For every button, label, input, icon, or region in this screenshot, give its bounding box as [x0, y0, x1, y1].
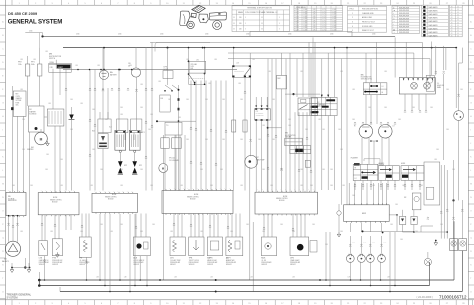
svg-text:1-BK: 1-BK: [174, 277, 177, 279]
svg-text:#-RD: #-RD: [313, 25, 316, 27]
svg-text:ECM: ECM: [112, 194, 117, 196]
svg-text:#-WH: #-WH: [295, 18, 299, 20]
svg-text:2-BK: 2-BK: [140, 107, 143, 109]
svg-text:▲: ▲: [393, 9, 395, 12]
svg-text:2-BK: 2-BK: [200, 169, 203, 171]
svg-text:2-BK: 2-BK: [340, 149, 343, 151]
svg-text:##: ##: [457, 35, 459, 37]
svg-text:HIGH/LOW: HIGH/LOW: [437, 85, 444, 87]
svg-text:1-RD: 1-RD: [140, 231, 143, 233]
svg-text:1-RD: 1-RD: [300, 185, 303, 187]
bus: ground bus y280: [39, 279, 454, 281]
table: numeric list: [450, 5, 463, 37]
gauge cluster MCI: [344, 205, 390, 222]
wires from lamps: [361, 138, 363, 164]
ground at starter: [46, 141, 50, 146]
headlight lamp HL2: [379, 125, 393, 139]
ground symbol 2: [27, 268, 31, 273]
svg-text:OIL SW: OIL SW: [261, 260, 266, 262]
spark plug SP1: [134, 153, 136, 162]
svg-text:##: ##: [457, 14, 459, 16]
svg-text:#-RD: #-RD: [313, 11, 316, 13]
svg-text:1-RD: 1-RD: [50, 231, 53, 233]
component switch box CS: [292, 93, 294, 95]
svg-text:##-YL: ##-YL: [322, 20, 326, 22]
svg-text:2-BK: 2-BK: [105, 119, 108, 121]
spark plug SP2: [119, 153, 121, 162]
svg-text:SENSOR: SENSOR: [261, 264, 267, 266]
svg-text:2-BK: 2-BK: [305, 129, 308, 131]
svg-text:SENSOR: SENSOR: [207, 264, 213, 266]
svg-text:1-RD: 1-RD: [110, 231, 113, 233]
svg-text:CHASSIS GND: CHASSIS GND: [362, 12, 374, 15]
svg-text:##-GN: ##-GN: [332, 11, 336, 13]
svg-text:2-BK: 2-BK: [338, 129, 341, 131]
svg-text:##-GN: ##-GN: [332, 27, 336, 29]
svg-text:MAPS: MAPS: [207, 257, 213, 260]
svg-text:↔: ↔: [393, 21, 395, 23]
svg-text:##-YL: ##-YL: [322, 9, 326, 11]
wires below HL box: [404, 94, 406, 110]
svg-text:1-RD: 1-RD: [340, 71, 343, 73]
svg-text:WW-WW-WW: WW-WW-WW: [399, 21, 410, 23]
svg-text:WW-WW-WW: WW-WW-WW: [399, 8, 410, 10]
svg-text:1-RD: 1-RD: [75, 65, 78, 67]
svg-text:1-RD: 1-RD: [90, 185, 93, 187]
svg-text:ANGLE GND: ANGLE GND: [362, 16, 373, 19]
svg-text:1-RD: 1-RD: [208, 83, 211, 85]
svg-text:PIN #: PIN #: [350, 9, 355, 11]
svg-text:##-BK: ##-BK: [303, 14, 307, 16]
svg-text:##: ##: [457, 17, 459, 19]
svg-text:##-BK: ##-BK: [303, 27, 307, 29]
svg-text:#-RD: #-RD: [313, 20, 316, 22]
wire: left bus y69.5: [63, 69, 237, 71]
starter motor SM: [35, 132, 48, 145]
sensor MCK: [261, 237, 276, 256]
svg-text:1-GN: 1-GN: [236, 63, 239, 65]
svg-text:#-RD: #-RD: [313, 18, 316, 20]
svg-text:##: ##: [451, 7, 453, 9]
svg-text:1-RD: 1-RD: [230, 231, 233, 233]
svg-text:2-BK: 2-BK: [262, 169, 265, 171]
indicator lamp group: [349, 223, 351, 232]
svg-text:TRENER GENERAL: TRENER GENERAL: [7, 292, 32, 296]
svg-text:1-RD: 1-RD: [214, 59, 217, 61]
sensor LTS: [39, 241, 48, 256]
svg-text:#-WH: #-WH: [295, 20, 299, 22]
svg-text:2-BK: 2-BK: [140, 169, 143, 171]
svg-text:2-BK: 2-BK: [395, 204, 398, 206]
wire right verticals: [443, 46, 445, 70]
svg-text:1-RD: 1-RD: [300, 71, 303, 73]
svg-text:1-RD: 1-RD: [252, 59, 255, 61]
svg-text:1-RD: 1-RD: [352, 89, 355, 91]
sensor TPS: [189, 237, 204, 256]
svg-text:2-BK: 2-BK: [205, 99, 208, 101]
wire: MCI to diodes y231.4: [363, 230, 414, 232]
diode D1: [69, 115, 74, 120]
svg-text:THROTTLE POS: THROTTLE POS: [189, 260, 199, 262]
svg-text:2-BK: 2-BK: [420, 185, 423, 187]
svg-text:ENGINE CONTROL: ENGINE CONTROL: [50, 200, 62, 202]
magneto MG (stator): [5, 241, 20, 256]
svg-text:##: ##: [451, 20, 453, 22]
svg-text:1-RD: 1-RD: [45, 51, 48, 53]
svg-text:DS 450 CE 2009: DS 450 CE 2009: [8, 11, 38, 16]
switch START cell (filled): [57, 65, 71, 69]
ground under PTS: [56, 252, 60, 257]
relay R4 (fan relay): [233, 66, 251, 77]
wires from diodes right of MCI: [400, 216, 406, 224]
svg-text:SENSOR: SENSOR: [226, 264, 232, 266]
svg-text:2-BK: 2-BK: [240, 99, 243, 101]
fuel pump FP: [245, 155, 258, 168]
svg-text:2-BK: 2-BK: [368, 107, 371, 109]
bus: y285.5: [39, 285, 429, 287]
svg-text:##: ##: [451, 12, 453, 14]
svg-text:SYSTEM: SYSTEM: [7, 296, 19, 300]
svg-text:CONNECTOR: CONNECTOR: [256, 115, 264, 117]
svg-text:NAME: NAME: [238, 11, 244, 14]
svg-text:CL: CL: [437, 83, 439, 85]
tail lamp TL2: [459, 239, 467, 251]
headlight module HL box: [399, 78, 435, 95]
module ECM C: [162, 191, 233, 214]
svg-text:##: ##: [451, 28, 453, 30]
svg-text:1-RD: 1-RD: [129, 65, 132, 67]
svg-text:1-RD: 1-RD: [120, 185, 123, 187]
svg-text:##: ##: [457, 12, 459, 14]
svg-text:#-WH: #-WH: [295, 16, 299, 18]
svg-text:2-BK: 2-BK: [272, 99, 275, 101]
svg-text:↕: ↕: [393, 12, 394, 15]
svg-text:##: ##: [457, 25, 459, 27]
diagnostic connector CC: [254, 109, 270, 120]
license plate lamp: [424, 258, 431, 265]
svg-text:2-BK: 2-BK: [220, 169, 223, 171]
svg-text:##: ##: [261, 17, 263, 19]
svg-text:##-GN: ##-GN: [332, 14, 336, 16]
svg-text:##-BK: ##-BK: [303, 16, 307, 18]
svg-text:1-RD: 1-RD: [150, 114, 153, 116]
svg-text:#-WH: #-WH: [295, 25, 299, 27]
lamp symbol R: [424, 83, 431, 90]
svg-text:WW-WW-WW: WW-WW-WW: [399, 13, 410, 15]
svg-text:1-RD: 1-RD: [262, 231, 265, 233]
svg-text:SOUND GND: SOUND GND: [362, 26, 373, 28]
svg-text:1-RD: 1-RD: [434, 159, 437, 161]
wire x462 down right edge: [461, 48, 463, 63]
tail lamp TL1: [450, 239, 458, 251]
svg-text:1-BK: 1-BK: [210, 277, 213, 279]
svg-text:SENSOR: SENSOR: [290, 264, 296, 266]
wire verticals field: [89, 70, 91, 191]
svg-text:J: J: [2, 143, 3, 145]
wire: bus y31.5: [250, 30, 352, 32]
battery BA: [103, 48, 105, 70]
svg-text:→: →: [393, 32, 395, 34]
sensor CPS: [290, 237, 309, 256]
svg-text:##-YL: ##-YL: [322, 23, 326, 25]
injector INJ: [102, 48, 104, 88]
svg-text:2-BK: 2-BK: [120, 224, 123, 226]
svg-text:1-RD: 1-RD: [20, 89, 23, 91]
svg-text:CON CONNECTOR NAME TERMINAL ##: CON CONNECTOR NAME TERMINAL ###: [245, 11, 278, 14]
svg-text:#-RD: #-RD: [313, 27, 316, 29]
svg-text:2-BK: 2-BK: [12, 185, 15, 187]
svg-text:##-YL: ##-YL: [322, 27, 326, 29]
module ECM A: [38, 193, 79, 215]
svg-text:1-GY: 1-GY: [352, 242, 355, 244]
svg-text:2-BK: 2-BK: [92, 149, 95, 151]
wire mesh left mid: [52, 69, 54, 109]
svg-text:1-RD: 1-RD: [292, 231, 295, 233]
tail light module box: [424, 162, 440, 205]
module ECM D: [255, 192, 318, 214]
svg-text:1-GY: 1-GY: [363, 242, 366, 244]
svg-text:##: ##: [457, 22, 459, 24]
svg-text:START: START: [58, 66, 63, 69]
svg-text:#: #: [245, 29, 246, 31]
svg-text:##: ##: [457, 7, 459, 9]
svg-text:2-BK: 2-BK: [30, 185, 33, 187]
wires relay R4: [233, 48, 235, 66]
svg-text:2-BK: 2-BK: [415, 231, 418, 233]
lamp symbol L: [411, 83, 418, 90]
svg-text:2-BK: 2-BK: [322, 129, 325, 131]
fuse PF1 30A: [39, 48, 41, 64]
svg-text:REAR 12 VOLT: REAR 12 VOLT: [362, 29, 374, 32]
starter relay box (hatched): [47, 109, 64, 126]
wire: bus y58.6: [228, 58, 430, 60]
ignition switch IS grid: [312, 97, 338, 115]
svg-text:##-GN: ##-GN: [332, 9, 336, 11]
svg-text:2-BK: 2-BK: [352, 195, 355, 197]
wire: link to tail lamps: [403, 231, 448, 233]
svg-text:##: ##: [457, 30, 459, 32]
wires below switch grids: [354, 180, 356, 190]
svg-text:WW-WW-WW: WW-WW-WW: [399, 24, 410, 26]
svg-text:1-BK: 1-BK: [292, 277, 295, 279]
svg-text:1-PM: 1-PM: [191, 66, 194, 68]
svg-text:#: #: [245, 23, 246, 25]
svg-text:1-BK: 1-BK: [387, 277, 390, 279]
svg-text:SOLENOID: SOLENOID: [29, 113, 36, 115]
fan motor VP: [162, 135, 164, 164]
svg-text:2-BK: 2-BK: [152, 224, 155, 226]
svg-text:1-RD: 1-RD: [270, 185, 273, 187]
svg-text:4-RD: 4-RD: [196, 59, 199, 61]
ignition coil IC1: [129, 130, 140, 150]
svg-text:1-RD: 1-RD: [268, 71, 271, 73]
svg-text:##: ##: [451, 25, 453, 27]
svg-text:##: ##: [451, 30, 453, 32]
DB2 component: [277, 75, 287, 89]
connector chevrons row y88: [65, 88, 67, 91]
svg-text:FUEL PUMP: FUEL PUMP: [257, 159, 265, 161]
svg-text:2-BK: 2-BK: [22, 119, 25, 121]
svg-text:MODULE: MODULE: [190, 198, 196, 200]
svg-text:##-GN: ##-GN: [332, 18, 336, 20]
svg-text:1-RD: 1-RD: [238, 83, 241, 85]
svg-text:2-BK: 2-BK: [280, 169, 283, 171]
wire: battery feed stub: [25, 32, 42, 34]
svg-text:##-BK: ##-BK: [303, 11, 307, 13]
svg-text:1-RD: 1-RD: [20, 59, 23, 61]
table: TERMINAL IDENTIFICATION: [232, 6, 290, 32]
svg-text:##-YL: ##-YL: [322, 25, 326, 27]
svg-text:SENSOR: SENSOR: [79, 264, 85, 266]
svg-text:MODULE: MODULE: [52, 201, 58, 203]
svg-text:1-RD: 1-RD: [97, 65, 100, 67]
svg-text:SWITCH: SWITCH: [49, 58, 55, 60]
TO box: [165, 122, 182, 135]
svg-text:2-BK: 2-BK: [325, 244, 328, 246]
svg-text:1-RD: 1-RD: [262, 125, 265, 127]
svg-text:2-BK: 2-BK: [300, 169, 303, 171]
svg-text:##-BK: ##-BK: [303, 25, 307, 27]
svg-text:1-BK: 1-BK: [124, 277, 127, 279]
svg-text:##: ##: [457, 9, 459, 11]
wire: main bus y47.5 (dark): [63, 47, 456, 49]
svg-text:ECM: ECM: [53, 197, 58, 199]
svg-text:##-BK: ##-BK: [303, 23, 307, 25]
tail circle TS: [458, 63, 460, 111]
svg-text:SENSOR: SENSOR: [52, 264, 58, 266]
svg-text:2-BK: 2-BK: [446, 89, 449, 91]
svg-text:1-RD: 1-RD: [48, 103, 51, 105]
svg-text:WW-WW-WW: WW-WW-WW: [399, 18, 410, 20]
module ECM B: [92, 193, 137, 212]
svg-text:2-BK: 2-BK: [240, 139, 243, 141]
svg-text:SENSOR: SENSOR: [170, 264, 176, 266]
wires above MCI: [348, 183, 350, 205]
svg-text:1-RD: 1-RD: [402, 185, 405, 187]
svg-text:#-RD: #-RD: [313, 9, 316, 11]
svg-text:##-GN: ##-GN: [332, 25, 336, 27]
svg-text:WW-WW-WW: WW-WW-WW: [399, 32, 410, 34]
svg-text:2-BK: 2-BK: [246, 224, 249, 226]
svg-text:2-BK: 2-BK: [384, 107, 387, 109]
table: PIN description: [348, 6, 387, 32]
node: bus junction: [41, 35, 43, 37]
wires above ignition switch: [321, 59, 323, 98]
svg-text:2-BK: 2-BK: [272, 139, 275, 141]
indicator circle left of MCI: [337, 211, 341, 215]
svg-text:2-BK: 2-BK: [340, 231, 343, 233]
svg-text:1-RD: 1-RD: [158, 81, 161, 83]
svg-text:#-WH: #-WH: [295, 9, 299, 11]
svg-text:2-BK: 2-BK: [186, 139, 189, 141]
svg-text:FUSE: FUSE: [16, 102, 20, 104]
svg-text:2-BK: 2-BK: [205, 139, 208, 141]
svg-text:##: ##: [457, 33, 459, 35]
svg-text:2-BK: 2-BK: [460, 89, 463, 91]
svg-text:( 24-03-2009 ): ( 24-03-2009 ): [417, 295, 434, 299]
svg-text:2-BK: 2-BK: [100, 169, 103, 171]
svg-text:↓: ↓: [393, 26, 394, 29]
svg-text:2-BK: 2-BK: [120, 107, 123, 109]
fuse PF2 15A: [27, 56, 29, 64]
svg-text:M: M: [40, 137, 43, 141]
aux relay boxes mid-left: [161, 138, 169, 149]
svg-text:2-BK: 2-BK: [22, 149, 25, 151]
svg-text:PRESSURE SW: PRESSURE SW: [52, 260, 63, 262]
wire horizontal y121: [157, 120, 196, 122]
svg-text:DB2: DB2: [277, 78, 280, 80]
wire drops to sensors: [41, 215, 43, 241]
svg-text:1-BK: 1-BK: [348, 277, 351, 279]
svg-text:2-BK: 2-BK: [70, 129, 73, 131]
wire: bus y53: [228, 52, 414, 54]
svg-text:1-RD: 1-RD: [384, 71, 387, 73]
relay R1: [98, 119, 111, 133]
pin arrows on HL box: [403, 78, 405, 80]
svg-text:##-YL: ##-YL: [322, 16, 326, 18]
svg-text:4: 4: [352, 26, 353, 28]
svg-text:OFF: OFF: [50, 67, 53, 69]
ground cluster: [24, 266, 26, 268]
svg-text:#: #: [279, 29, 280, 31]
svg-text:1-RD: 1-RD: [150, 185, 153, 187]
svg-text:L: L: [2, 170, 3, 172]
svg-text:3: 3: [352, 22, 353, 24]
svg-text:↑: ↑: [393, 23, 394, 26]
starter solenoid SO: [28, 106, 44, 132]
svg-text:##-BK: ##-BK: [303, 9, 307, 11]
svg-text:2-BK: 2-BK: [168, 99, 171, 101]
svg-text:#-RD: #-RD: [313, 23, 316, 25]
svg-text:C\DTB: C\DTB: [16, 96, 20, 98]
svg-text:FREE: FREE: [50, 62, 54, 64]
svg-text:2: 2: [352, 17, 353, 19]
svg-text:VP (1/2): VP (1/2): [169, 158, 175, 160]
fuse F6: [243, 120, 247, 132]
svg-text:##-GN: ##-GN: [332, 16, 336, 18]
svg-text:1-RD: 1-RD: [140, 84, 143, 86]
svg-text:1-RD: 1-RD: [33, 59, 36, 61]
sensor PTS: [52, 239, 62, 256]
svg-text:1-RD: 1-RD: [178, 117, 181, 119]
wires CS to bus band: [296, 59, 298, 97]
connector chevrons row y124: [354, 122, 356, 125]
svg-text:2-BK: 2-BK: [258, 139, 261, 141]
sensor ACK (knock): [133, 237, 150, 256]
svg-text:SYSTEM: SYSTEM: [16, 100, 23, 102]
svg-text:2-BK: 2-BK: [412, 107, 415, 109]
engine stop switch box: [160, 95, 170, 112]
svg-text:##: ##: [451, 14, 453, 16]
svg-text:#-WH: #-WH: [295, 23, 299, 25]
svg-text:MODULE: MODULE: [279, 200, 285, 202]
svg-text:1-RD: 1-RD: [60, 185, 63, 187]
horn HO: [426, 75, 434, 91]
svg-text:1-RD: 1-RD: [210, 185, 213, 187]
fuse F5: [232, 120, 236, 132]
svg-text:INJ: INJ: [92, 131, 95, 133]
svg-text:2-BK: 2-BK: [222, 99, 225, 101]
svg-text:2-BK: 2-BK: [312, 224, 315, 226]
svg-text:2-BK: 2-BK: [288, 119, 291, 121]
svg-text:##: ##: [451, 17, 453, 19]
svg-text:##-YL: ##-YL: [322, 14, 326, 16]
svg-text:MULTIFUNCTION: MULTIFUNCTION: [49, 56, 61, 58]
svg-text:##: ##: [261, 23, 263, 25]
svg-text:2-BK: 2-BK: [46, 154, 49, 156]
sensor MAPS: [207, 237, 222, 256]
svg-text:##-YL: ##-YL: [322, 11, 326, 13]
